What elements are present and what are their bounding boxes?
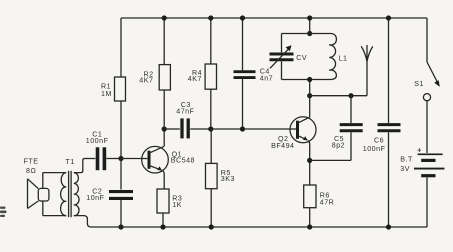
svg-text:1K: 1K: [172, 201, 182, 209]
resistor R3: [157, 189, 169, 213]
svg-text:8Ω: 8Ω: [26, 167, 36, 175]
capacitor C4: [234, 18, 256, 129]
resistor R1: [115, 77, 126, 101]
node C4 base junction: [240, 126, 245, 131]
wire ground rail: [91, 226, 427, 228]
wire Q2 emitter node: [309, 160, 311, 185]
capacitor C5: [340, 96, 363, 161]
node C4 top junction: [240, 15, 245, 20]
speaker FTE: [28, 173, 49, 216]
svg-text:100nF: 100nF: [86, 137, 109, 145]
svg-text:3K3: 3K3: [221, 175, 235, 183]
scan smudge left edge: [0, 207, 7, 218]
svg-text:100nF: 100nF: [363, 145, 386, 153]
wire tank top: [282, 33, 331, 35]
resistor R2: [159, 65, 170, 90]
core: [68, 171, 70, 217]
node R3 ground junction: [160, 224, 165, 229]
capacitor C3: [164, 118, 296, 138]
svg-text:3V: 3V: [400, 165, 410, 173]
wire R1 branch top: [120, 18, 122, 77]
node tank bottom junction: [307, 77, 312, 82]
node C2 ground junction: [118, 224, 123, 229]
node C6 ground junction: [386, 224, 391, 229]
svg-text:L1: L1: [339, 54, 348, 62]
wire C1 to Q1 base: [106, 158, 147, 160]
node R6 ground junction: [307, 224, 312, 229]
switch S1: [423, 18, 439, 153]
svg-text:+: +: [417, 147, 422, 155]
svg-text:8p2: 8p2: [332, 142, 345, 150]
wire tank bottom: [282, 79, 331, 81]
capacitor CV variable: [270, 34, 294, 80]
svg-text:4K7: 4K7: [188, 75, 202, 83]
wire T1 secondary bottom to ground rail: [74, 216, 91, 227]
wire R3 bottom: [162, 213, 164, 227]
node tank supply junction: [307, 15, 312, 20]
secondary winding: [74, 173, 79, 216]
svg-text:10nF: 10nF: [86, 194, 104, 202]
wire R1 bottom to base node: [120, 101, 122, 159]
wire top supply rail: [121, 17, 427, 19]
antenna: [361, 45, 373, 96]
wire tank to collector node: [309, 80, 311, 118]
wire T1 secondary top to C1: [74, 159, 96, 173]
transformer T1: [61, 171, 79, 217]
svg-text:BF494: BF494: [271, 142, 294, 150]
wire R4 bottom: [210, 89, 212, 129]
wire R6 bottom: [309, 208, 311, 227]
battery BT: [414, 154, 444, 227]
node R2 top junction: [162, 15, 167, 20]
wire supply to tank: [309, 18, 311, 34]
capacitor C6: [378, 18, 401, 227]
wire emitter to C5 bottom: [310, 159, 351, 161]
node C5 top junction: [348, 93, 353, 98]
node base Q1 junction: [118, 156, 123, 161]
node R5 ground junction: [209, 224, 214, 229]
svg-text:S1: S1: [414, 80, 424, 88]
wire R2 bottom: [163, 90, 165, 129]
wire R4 branch: [210, 18, 212, 64]
resistor R4: [205, 64, 216, 89]
svg-text:T1: T1: [66, 158, 75, 166]
node R4 top junction: [208, 15, 213, 20]
wire speaker to T1 primary: [43, 172, 66, 174]
wire R2 branch: [163, 18, 165, 65]
svg-text:47R: 47R: [320, 198, 335, 206]
node C6 top junction: [386, 15, 391, 20]
svg-text:CV: CV: [296, 54, 307, 62]
transistor Q1: [142, 146, 169, 189]
svg-text:B.T: B.T: [400, 156, 413, 164]
resistor R6: [304, 185, 316, 208]
capacitor C1: [98, 147, 105, 170]
node R4 R5 base junction: [208, 126, 213, 131]
svg-text:FTE: FTE: [24, 158, 39, 166]
node collector junction: [307, 93, 312, 98]
svg-text:47nF: 47nF: [176, 107, 194, 115]
svg-text:4K7: 4K7: [139, 77, 153, 85]
inductor L1: [329, 34, 336, 80]
resistor R5: [210, 129, 212, 163]
primary winding: [61, 173, 67, 216]
wire collector node to antenna: [310, 95, 367, 97]
svg-text:C6: C6: [374, 136, 384, 144]
node emitter junction: [307, 158, 312, 163]
wire R5 bottom: [210, 189, 212, 227]
wire Q1 collector up: [163, 129, 165, 146]
svg-text:1M: 1M: [101, 90, 112, 98]
capacitor C2: [109, 159, 133, 228]
svg-text:4n7: 4n7: [260, 75, 273, 83]
node Q1 collector junction: [162, 126, 167, 131]
transistor Q2: [290, 117, 316, 161]
svg-text:BC548: BC548: [171, 157, 195, 165]
